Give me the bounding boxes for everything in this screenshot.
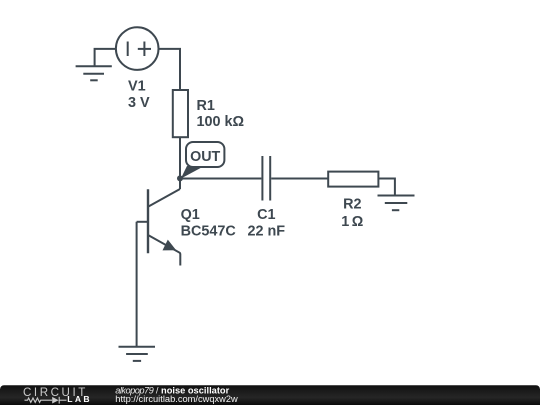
svg-text:3 V: 3 V (128, 95, 150, 111)
svg-text:V1: V1 (128, 78, 146, 94)
svg-text:LAB: LAB (67, 394, 92, 404)
svg-text:Q1: Q1 (181, 207, 200, 223)
svg-text:http://circuitlab.com/cwqxw2w: http://circuitlab.com/cwqxw2w (115, 394, 238, 404)
svg-text:100 kΩ: 100 kΩ (197, 114, 245, 130)
svg-text:22 nF: 22 nF (248, 224, 286, 240)
svg-text:OUT: OUT (190, 149, 220, 165)
svg-text:R1: R1 (197, 98, 215, 114)
svg-text:C1: C1 (257, 207, 275, 223)
svg-text:R2: R2 (343, 197, 361, 213)
svg-text:1 Ω: 1 Ω (341, 214, 363, 230)
svg-text:BC547C: BC547C (181, 224, 236, 240)
